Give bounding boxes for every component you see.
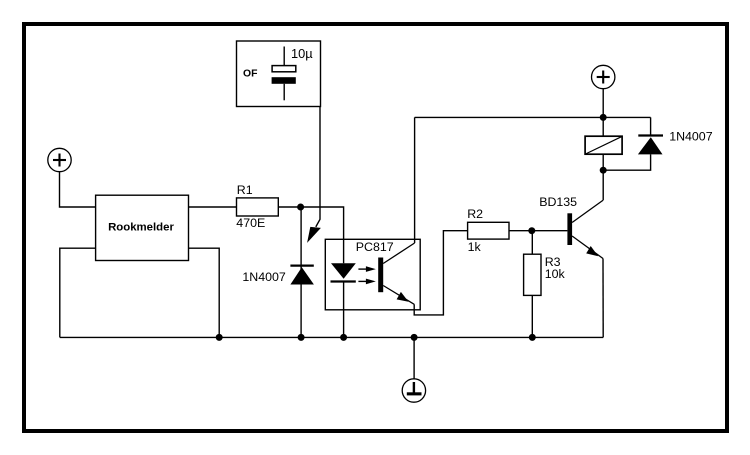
rail node R3 bbox=[529, 334, 536, 341]
arrow from OF box to diode position bbox=[307, 107, 321, 243]
svg-text:Rookmelder: Rookmelder bbox=[108, 221, 174, 233]
Rookmelder U1 bbox=[96, 195, 189, 260]
svg-text:OF: OF bbox=[243, 69, 257, 80]
resistor R1 bbox=[236, 183, 278, 230]
wire top rail to diode D2 bbox=[650, 117, 652, 135]
svg-text:10k: 10k bbox=[545, 267, 566, 281]
svg-text:1k: 1k bbox=[468, 240, 482, 254]
wire +V right down bbox=[602, 89, 604, 118]
wire Rookmelder left-bottom to ground rail bbox=[60, 248, 96, 337]
svg-text:R2: R2 bbox=[467, 207, 483, 221]
wire Rookmelder right-bottom to ground rail bbox=[189, 248, 220, 337]
power +V left bbox=[48, 148, 71, 171]
LED of PC817 bbox=[331, 263, 356, 281]
node R2/R3/base bbox=[528, 227, 535, 234]
diode D1 1N4007 bbox=[242, 207, 314, 337]
svg-text:10µ: 10µ bbox=[291, 46, 313, 61]
rail node LED bbox=[340, 334, 347, 341]
svg-text:R1: R1 bbox=[237, 183, 253, 197]
node relay/diode/collector bbox=[600, 167, 607, 174]
rail node D1 bbox=[298, 334, 305, 341]
resistor R2 bbox=[467, 207, 509, 254]
transistor Q1 BD135 bbox=[539, 170, 603, 258]
rail node ground bbox=[411, 334, 418, 341]
wire Rookmelder to R1 bbox=[189, 206, 237, 208]
wire from +V left to Rookmelder bbox=[60, 172, 96, 207]
optocoupler U2 PC817 bbox=[325, 239, 420, 309]
svg-text:470E: 470E bbox=[236, 216, 265, 230]
svg-text:BD135: BD135 bbox=[539, 195, 577, 209]
wire R1 to LED corner bbox=[278, 207, 343, 263]
ground symbol bbox=[402, 337, 425, 402]
wire R2 to BD135 base bbox=[509, 230, 567, 232]
top rail wire bbox=[415, 116, 651, 118]
rail node Rookmelder bbox=[216, 334, 223, 341]
svg-text:1N4007: 1N4007 bbox=[669, 129, 713, 143]
wire BD135 emitter to ground rail bbox=[602, 259, 604, 338]
phototransistor of PC817 bbox=[378, 243, 414, 304]
LED light arrow 1 bbox=[358, 266, 375, 272]
wire LED cathode to ground rail bbox=[343, 282, 345, 338]
capacitor C1 box OF 10u bbox=[237, 41, 321, 107]
ground rail bbox=[60, 336, 603, 338]
diode D2 1N4007 bbox=[603, 129, 713, 170]
svg-text:1N4007: 1N4007 bbox=[242, 270, 286, 284]
resistor R3 bbox=[524, 231, 566, 338]
node R1/diode bbox=[297, 204, 304, 211]
wire PC817 emitter to R2 bbox=[414, 231, 467, 315]
power +V right bbox=[592, 65, 615, 88]
node +V/relay bbox=[600, 114, 607, 121]
LED light arrow 2 bbox=[358, 279, 375, 285]
wire PC817 collector up to top rail bbox=[414, 117, 416, 243]
svg-text:PC817: PC817 bbox=[356, 240, 394, 254]
relay K1 bbox=[585, 117, 622, 170]
